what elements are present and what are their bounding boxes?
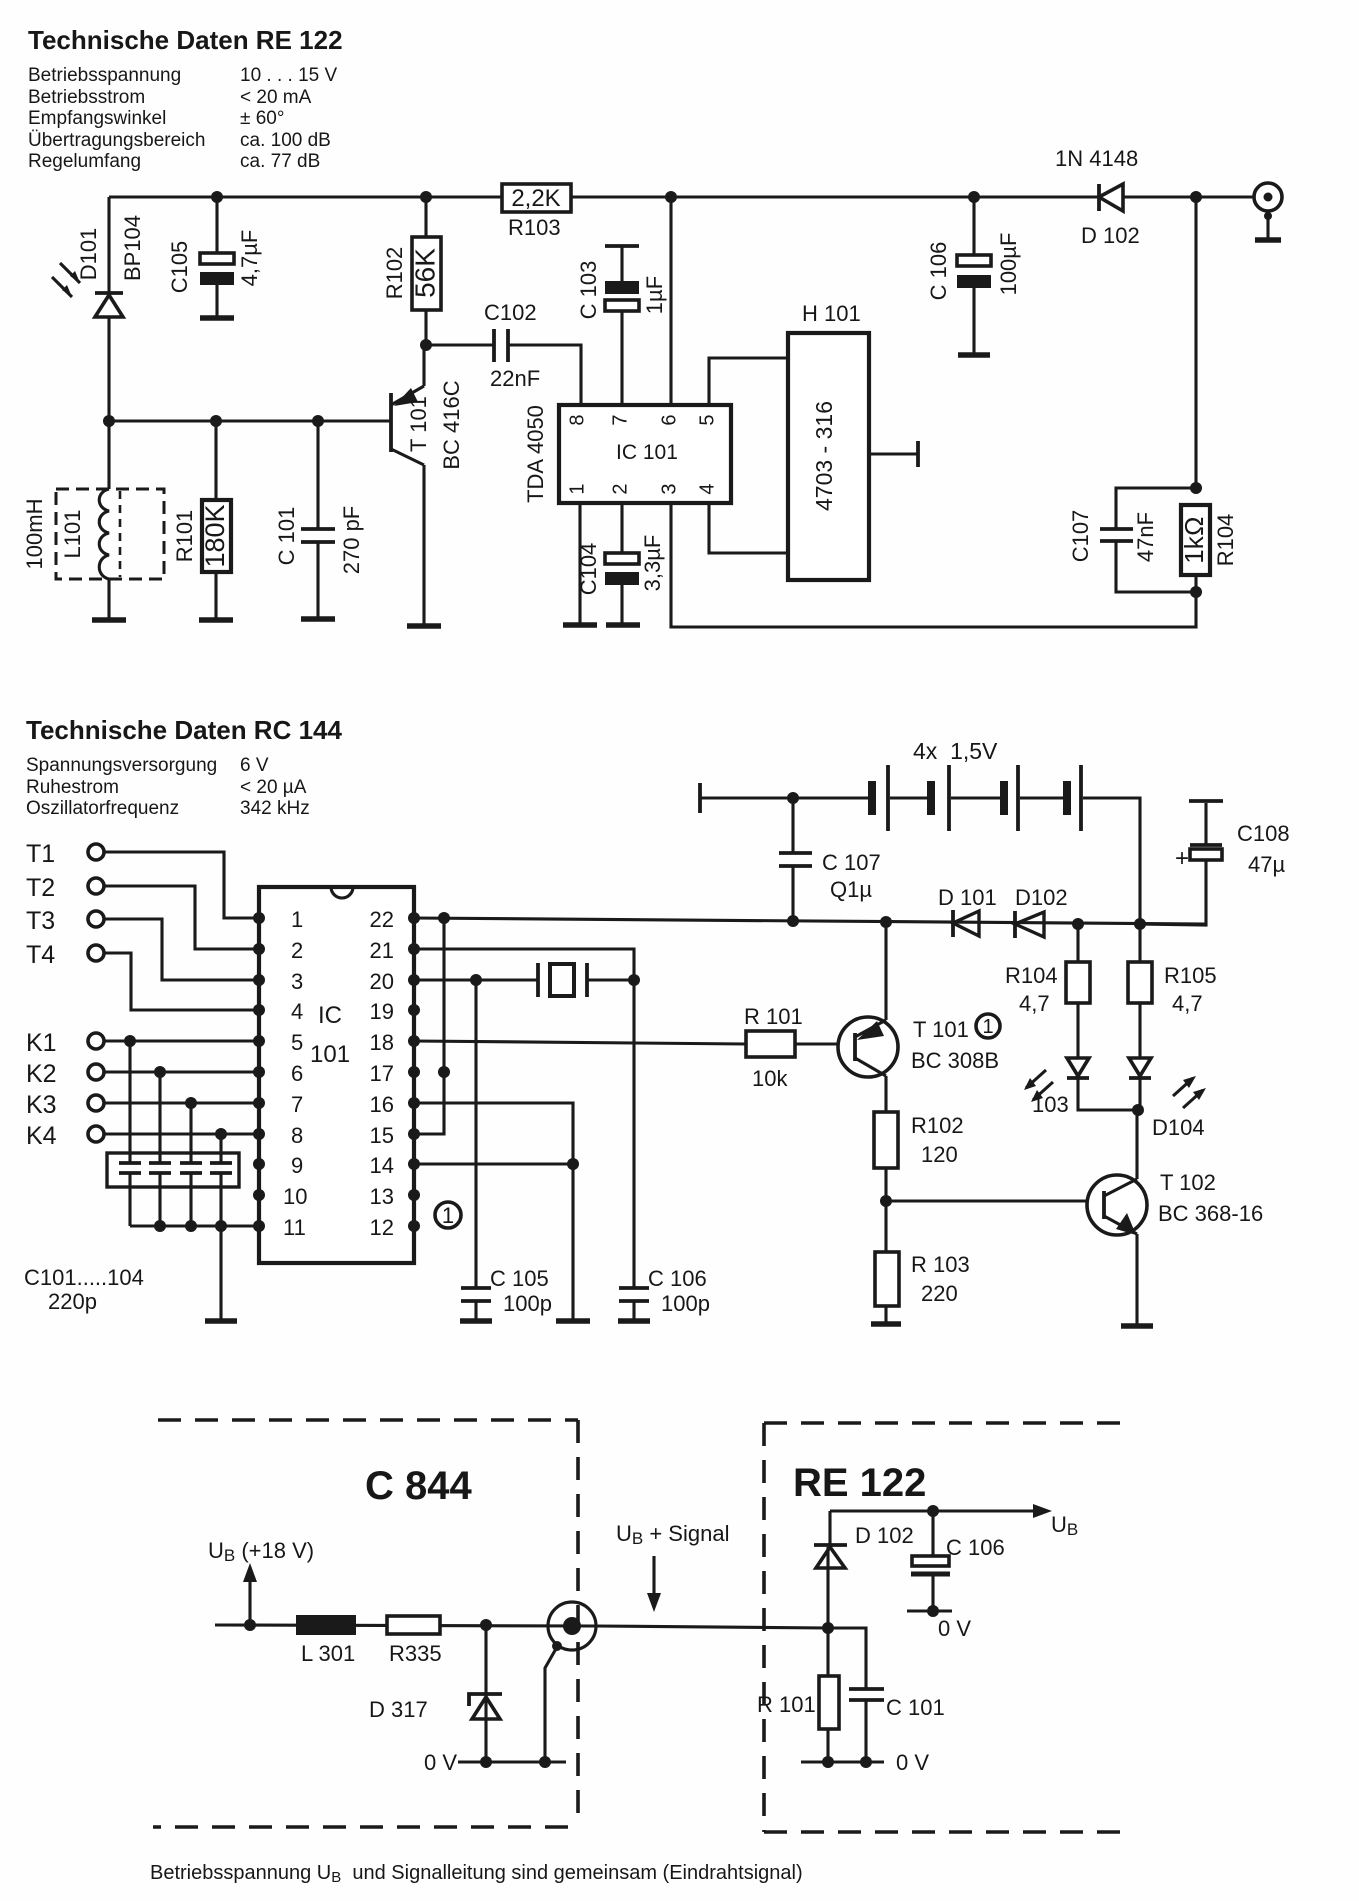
svg-text:56K: 56K xyxy=(409,248,440,298)
svg-text:270 pF: 270 pF xyxy=(339,506,364,575)
svg-text:R102: R102 xyxy=(911,1113,964,1138)
UB arrow xyxy=(248,1577,251,1625)
wire 0V to connector shell xyxy=(545,1647,557,1762)
svg-text:R335: R335 xyxy=(389,1641,442,1666)
svg-text:220: 220 xyxy=(921,1281,958,1306)
wire pin6 to rail xyxy=(669,197,672,405)
svg-text:101: 101 xyxy=(310,1041,350,1068)
svg-text:C 101: C 101 xyxy=(274,507,299,566)
wire pin16 down to pin14 line xyxy=(414,1103,573,1321)
main supply wire C844 xyxy=(215,1625,596,1626)
svg-text:C102: C102 xyxy=(484,300,537,325)
svg-text:4703 - 316: 4703 - 316 xyxy=(811,401,837,511)
LED D103 xyxy=(1024,1058,1138,1117)
vertical pin22-pin17-pin15 xyxy=(414,918,444,1134)
svg-text:7: 7 xyxy=(609,414,631,425)
svg-text:< 20 µA: < 20 µA xyxy=(240,777,307,798)
svg-text:13: 13 xyxy=(370,1184,394,1209)
node dot C106 top xyxy=(927,1505,939,1517)
svg-text:Regelumfang: Regelumfang xyxy=(28,151,141,172)
svg-text:± 60°: ± 60° xyxy=(240,108,284,129)
battery 4x 1,5V xyxy=(700,738,1140,924)
node dot C105/rail xyxy=(211,191,223,203)
svg-text:47µ: 47µ xyxy=(1248,852,1285,877)
wire K2 to pin6 xyxy=(104,1070,259,1073)
wire K4 to pin8 xyxy=(104,1132,259,1135)
crystal Q101 xyxy=(538,963,640,997)
svg-text:C 105: C 105 xyxy=(490,1266,549,1291)
right pin dots xyxy=(408,912,420,1232)
svg-text:L 301: L 301 xyxy=(301,1641,355,1666)
svg-text:Betriebsspannung: Betriebsspannung xyxy=(28,65,181,86)
svg-text:16: 16 xyxy=(370,1092,394,1117)
svg-text:5: 5 xyxy=(291,1030,303,1055)
transistor T101 BC308B (RC144) xyxy=(838,922,1000,1112)
wire pin3 bottom rail xyxy=(671,503,1196,627)
resistor R101 180K xyxy=(172,421,233,620)
wire T1 to pin1 xyxy=(104,852,259,918)
svg-text:T 102: T 102 xyxy=(1160,1170,1216,1195)
svg-text:2,2K: 2,2K xyxy=(511,185,560,212)
svg-text:T2: T2 xyxy=(26,874,55,902)
transistor T101 BC416C xyxy=(391,345,464,626)
svg-text:R101: R101 xyxy=(172,510,197,563)
svg-text:Betriebsstrom: Betriebsstrom xyxy=(28,87,145,108)
svg-text:47nF: 47nF xyxy=(1133,512,1158,562)
capacitor C101 270pF xyxy=(274,421,364,619)
svg-text:1kΩ: 1kΩ xyxy=(1179,516,1209,563)
svg-text:5: 5 xyxy=(696,414,718,425)
svg-text:C107: C107 xyxy=(1068,510,1093,563)
coax connector C844 xyxy=(548,1602,596,1651)
wire K1 to pin5 xyxy=(104,1039,259,1042)
right pin numbers 22-12 xyxy=(370,907,394,1240)
0V rail RE122 xyxy=(801,1760,884,1763)
svg-text:C 844: C 844 xyxy=(365,1464,472,1508)
svg-text:6 V: 6 V xyxy=(240,755,269,776)
svg-text:8: 8 xyxy=(291,1123,303,1148)
resistor R104 4,7 (RC144) xyxy=(1005,924,1090,1058)
svg-text:K3: K3 xyxy=(26,1091,57,1119)
svg-text:Technische Daten RE 122: Technische Daten RE 122 xyxy=(28,25,343,55)
capacitor C107 0,1u (RC144) xyxy=(779,798,881,921)
svg-text:D 102: D 102 xyxy=(855,1523,914,1548)
wire pin4 to H101 xyxy=(709,503,788,553)
svg-text:T1: T1 xyxy=(26,840,55,868)
ground bus to pin11 xyxy=(130,1224,259,1227)
svg-text:K2: K2 xyxy=(26,1060,57,1088)
wire pin14 xyxy=(414,1162,573,1165)
wire T4 to pin4 xyxy=(104,953,259,1010)
capacitor C106 100uF xyxy=(926,197,1021,355)
svg-text:< 20 mA: < 20 mA xyxy=(240,87,312,108)
resistor R104 1kOhm xyxy=(1179,505,1238,592)
svg-text:18: 18 xyxy=(370,1030,394,1055)
svg-text:12: 12 xyxy=(370,1215,394,1240)
svg-text:BC 308B: BC 308B xyxy=(911,1048,999,1073)
capacitor bank C101..C104 220p xyxy=(24,1041,239,1314)
capacitor C105 100p (RC144) xyxy=(460,980,552,1321)
svg-text:Empfangswinkel: Empfangswinkel xyxy=(28,108,166,129)
svg-text:C101.....104: C101.....104 xyxy=(24,1265,144,1290)
lower rail to T101 base xyxy=(109,419,391,422)
svg-text:RE 122: RE 122 xyxy=(793,1461,926,1505)
svg-text:3: 3 xyxy=(658,483,680,494)
svg-text:R102: R102 xyxy=(382,247,407,300)
node dot D317 xyxy=(480,1619,492,1631)
svg-text:T 101: T 101 xyxy=(406,396,431,452)
svg-text:1: 1 xyxy=(566,483,588,494)
wire: D101 branch vertical xyxy=(107,197,110,421)
spec table RE 122 xyxy=(28,65,337,172)
svg-text:Betriebsspannung UB und Signa: Betriebsspannung UB und Signalleitung si… xyxy=(150,1862,803,1886)
svg-text:D101: D101 xyxy=(76,228,101,281)
svg-text:1: 1 xyxy=(442,1203,454,1228)
svg-text:14: 14 xyxy=(370,1153,394,1178)
node dot C107 top xyxy=(787,792,799,804)
svg-text:0 V: 0 V xyxy=(424,1750,457,1775)
svg-text:100mH: 100mH xyxy=(22,499,47,570)
svg-text:C 101: C 101 xyxy=(886,1695,945,1720)
wire pin5 to H101 xyxy=(709,358,788,405)
node dot T101 emitter on rail xyxy=(880,916,892,928)
svg-text:C 106: C 106 xyxy=(946,1535,1005,1560)
capacitor C104 3,3uF on pin2 xyxy=(576,503,665,625)
svg-text:T3: T3 xyxy=(26,907,55,935)
wire K3 to pin7 xyxy=(104,1101,259,1104)
svg-text:IC: IC xyxy=(318,1002,342,1029)
resistor R105 4,7 (RC144) xyxy=(1128,924,1217,1058)
svg-text:BP104: BP104 xyxy=(120,215,145,281)
svg-text:T4: T4 xyxy=(26,941,55,969)
svg-text:120: 120 xyxy=(921,1142,958,1167)
capacitor C102 22nF xyxy=(426,300,581,405)
svg-text:100p: 100p xyxy=(661,1291,710,1316)
wire pin21 to crystal right xyxy=(414,949,634,980)
signal wire to RE122 xyxy=(596,1626,828,1628)
svg-text:0 V: 0 V xyxy=(938,1616,971,1641)
resistor R102 56K xyxy=(382,197,441,345)
wire T3 to pin3 xyxy=(104,919,259,980)
svg-text:1N 4148: 1N 4148 xyxy=(1055,146,1138,171)
svg-text:1: 1 xyxy=(291,907,303,932)
inductor L301 xyxy=(296,1615,356,1666)
node dot rail/R104 branch xyxy=(1190,191,1202,203)
svg-text:4,7: 4,7 xyxy=(1172,991,1203,1016)
svg-text:20: 20 xyxy=(370,969,394,994)
svg-text:R 101: R 101 xyxy=(757,1692,816,1717)
capacitor C103 1uF on pin7 xyxy=(576,246,667,405)
svg-text:4: 4 xyxy=(696,483,718,494)
svg-text:C 106: C 106 xyxy=(648,1266,707,1291)
node dot C106/rail xyxy=(968,191,980,203)
svg-text:D 102: D 102 xyxy=(1081,223,1140,248)
node dot R104 top xyxy=(1072,918,1084,930)
svg-text:R 103: R 103 xyxy=(911,1252,970,1277)
svg-text:11: 11 xyxy=(283,1215,306,1240)
spec table RC 144 xyxy=(26,755,310,819)
svg-text:4,7µF: 4,7µF xyxy=(237,230,262,287)
wire T2 to pin2 xyxy=(104,886,259,949)
wire pin20 to crystal left xyxy=(414,978,538,981)
C844 dashed box xyxy=(153,1420,578,1827)
svg-text:6: 6 xyxy=(291,1061,303,1086)
svg-text:D102: D102 xyxy=(1015,885,1068,910)
svg-text:R103: R103 xyxy=(508,215,561,240)
svg-text:H 101: H 101 xyxy=(802,301,861,326)
UB+Signal arrow xyxy=(652,1556,655,1598)
svg-text:10k: 10k xyxy=(752,1066,788,1091)
svg-text:R104: R104 xyxy=(1005,963,1058,988)
node dot lower rail / C101 xyxy=(312,415,324,427)
svg-text:T 101: T 101 xyxy=(913,1017,969,1042)
resistor R103 220 (RC144) xyxy=(871,1201,970,1324)
svg-text:8: 8 xyxy=(566,414,588,425)
node dot lower rail / D101 xyxy=(103,415,115,427)
svg-text:3,3µF: 3,3µF xyxy=(640,535,665,592)
UB output rail RE122 xyxy=(830,1509,1038,1512)
zener diode D317 xyxy=(369,1625,502,1762)
svg-text:TDA 4050: TDA 4050 xyxy=(523,405,548,503)
svg-text:3: 3 xyxy=(291,969,303,994)
svg-text:103: 103 xyxy=(1032,1092,1069,1117)
node dot UB arrow xyxy=(244,1619,256,1631)
svg-text:180K: 180K xyxy=(200,504,230,567)
svg-text:Spannungsversorgung: Spannungsversorgung xyxy=(26,755,217,776)
svg-text:4x 1,5V: 4x 1,5V xyxy=(913,738,998,764)
svg-text:L101: L101 xyxy=(60,510,85,559)
svg-text:R 101: R 101 xyxy=(744,1004,803,1029)
capacitor C105 4,7uF xyxy=(167,197,262,318)
svg-text:D 317: D 317 xyxy=(369,1697,428,1722)
node dot T101 emitter / C102 xyxy=(420,339,432,351)
node dot R104 bottom xyxy=(1190,586,1202,598)
svg-text:K4: K4 xyxy=(26,1122,57,1150)
svg-text:10 . . . 15 V: 10 . . . 15 V xyxy=(240,65,337,86)
left pin numbers 1-11 xyxy=(283,907,307,1240)
supply rail from pin22 xyxy=(414,918,1206,924)
svg-text:IC 101: IC 101 xyxy=(616,441,678,464)
node dot R102/rail xyxy=(420,191,432,203)
svg-text:Q1µ: Q1µ xyxy=(830,877,872,902)
svg-text:D104: D104 xyxy=(1152,1115,1205,1140)
svg-text:C108: C108 xyxy=(1237,821,1290,846)
resistor R101 10k (RC144) xyxy=(744,1004,855,1091)
node dot signal entry xyxy=(822,1622,834,1634)
hybrid H101 4703-316 xyxy=(788,301,918,580)
capacitor C108 47u xyxy=(1140,801,1290,925)
svg-text:Oszillatorfrequenz: Oszillatorfrequenz xyxy=(26,798,179,819)
transistor T102 BC368-16 xyxy=(1087,1110,1263,1326)
svg-text:2: 2 xyxy=(609,483,631,494)
svg-text:1µF: 1µF xyxy=(642,276,667,314)
resistor R101 (RE122) xyxy=(757,1628,839,1762)
wire pin18 to R101 xyxy=(414,1041,746,1044)
node dot C107 bottom on rail xyxy=(787,915,799,927)
svg-text:342 kHz: 342 kHz xyxy=(240,798,310,819)
wire rail to R104 xyxy=(1194,197,1197,488)
svg-text:ca. 77 dB: ca. 77 dB xyxy=(240,151,320,172)
svg-text:0 V: 0 V xyxy=(896,1750,929,1775)
svg-text:R105: R105 xyxy=(1164,963,1217,988)
node dot R104 top xyxy=(1190,482,1202,494)
capacitor C106 (RE122) xyxy=(907,1511,1005,1641)
svg-text:C105: C105 xyxy=(167,241,192,294)
inductor L101 100mH xyxy=(22,421,164,620)
svg-text:+: + xyxy=(1175,845,1189,872)
top supply rail xyxy=(109,195,1254,198)
node dot T102 collector / LEDs xyxy=(1132,1104,1144,1116)
svg-text:22nF: 22nF xyxy=(490,366,540,391)
svg-text:10: 10 xyxy=(283,1184,307,1209)
wire pin1 to ground xyxy=(578,503,581,625)
circled 1 mark near IC xyxy=(435,1202,461,1228)
svg-text:22: 22 xyxy=(370,907,394,932)
svg-text:Ruhestrom: Ruhestrom xyxy=(26,777,119,798)
diode D102 (RE122) xyxy=(814,1511,914,1628)
output connector socket xyxy=(1254,183,1282,240)
svg-text:17: 17 xyxy=(370,1061,394,1086)
diode D101 (RC144) xyxy=(938,885,997,937)
resistor R102 120 (RC144) xyxy=(874,1112,964,1201)
svg-text:15: 15 xyxy=(370,1123,394,1148)
svg-text:BC 416C: BC 416C xyxy=(439,380,464,469)
svg-text:100µF: 100µF xyxy=(996,233,1021,296)
node dot R105/battery xyxy=(1134,918,1146,930)
svg-text:21: 21 xyxy=(370,938,394,963)
node dot lower rail / R101 xyxy=(210,415,222,427)
IC 101 (RC144) xyxy=(253,887,420,1263)
capacitor C107 47nF xyxy=(1068,488,1196,592)
resistor R335 xyxy=(387,1616,442,1666)
photodiode D101 BP104 xyxy=(52,215,145,317)
svg-text:2: 2 xyxy=(291,938,303,963)
svg-text:C104: C104 xyxy=(576,543,601,596)
svg-text:Übertragungsbereich: Übertragungsbereich xyxy=(28,130,205,151)
svg-text:ca. 100 dB: ca. 100 dB xyxy=(240,130,331,151)
LED D104 xyxy=(1129,1058,1206,1140)
svg-text:1: 1 xyxy=(982,1016,993,1038)
capacitor C106 100p (RC144) xyxy=(618,980,710,1321)
left pin dots xyxy=(253,912,265,1232)
svg-text:Technische Daten RC 144: Technische Daten RC 144 xyxy=(26,715,343,745)
svg-text:100p: 100p xyxy=(503,1291,552,1316)
capacitor C101 (RE122) xyxy=(828,1628,945,1762)
resistor R103 2,2K on rail xyxy=(502,184,571,240)
wire to T102 base xyxy=(886,1199,1104,1202)
svg-text:7: 7 xyxy=(291,1092,303,1117)
svg-text:D 101: D 101 xyxy=(938,885,997,910)
svg-text:C 106: C 106 xyxy=(926,242,951,301)
svg-text:6: 6 xyxy=(658,414,680,425)
svg-text:R104: R104 xyxy=(1213,514,1238,567)
bus ground stem xyxy=(219,1226,222,1321)
svg-text:C 107: C 107 xyxy=(822,850,881,875)
diode D102 1N4148 on rail xyxy=(1055,146,1140,248)
svg-text:C 103: C 103 xyxy=(576,261,601,320)
svg-text:9: 9 xyxy=(291,1153,303,1178)
node dot pin6/rail xyxy=(665,191,677,203)
svg-text:BC 368-16: BC 368-16 xyxy=(1158,1201,1263,1226)
svg-text:4: 4 xyxy=(291,999,303,1024)
node dot R102/R103/T102 base xyxy=(880,1195,892,1207)
svg-text:4,7: 4,7 xyxy=(1019,991,1050,1016)
diode D102 (RC144) xyxy=(1015,885,1068,938)
RE122 dashed box xyxy=(764,1423,1130,1832)
svg-text:K1: K1 xyxy=(26,1029,57,1057)
svg-text:220p: 220p xyxy=(48,1289,97,1314)
IC101 TDA4050 xyxy=(523,405,731,503)
svg-text:19: 19 xyxy=(370,999,394,1024)
